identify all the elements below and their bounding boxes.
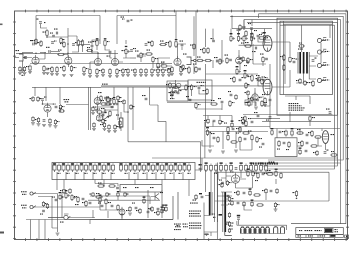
wire tank extra [221,178,232,205]
resistor R83 [195,102,201,109]
resistor R34 string [159,68,165,77]
resistor R85 [229,100,235,107]
cluster tank c [266,170,274,175]
capacitor C3 [127,20,133,22]
resistor R111 bl [117,191,120,197]
cluster under strip a [97,183,105,188]
pot P2 treble [230,33,235,42]
tube V2B [111,56,118,65]
tube V2A [94,56,101,65]
capacitor C12 in box [198,85,204,89]
jack J7 lower [21,205,36,209]
cluster trem osc [166,80,191,93]
cluster under strip c [60,188,71,194]
resistor R9 vert [77,39,83,47]
capacitor C51 [51,41,56,44]
wire psu mid [204,216,217,233]
cluster trem top a [271,128,282,136]
pot P9 reverb [206,127,211,136]
cluster ch2 mix [214,57,224,65]
resistor R26 string [55,66,59,76]
wire tank drops [236,177,277,188]
wire psu top [204,196,210,235]
ground psu [204,234,209,236]
resistor R92 board [250,162,253,172]
wire plate join [72,47,83,52]
wire bl rail2 [90,196,150,204]
wire mid verticals [194,60,240,98]
wire heater bus [237,221,287,234]
wire psu up links [206,170,212,192]
cluster trem top c [296,129,308,136]
resistor R72 [86,47,93,52]
box power amp outer [277,18,337,115]
wire V2A [90,52,98,68]
resistor R117 ml [107,124,111,133]
capacitor C55 [186,96,191,101]
cluster tank row2 b [249,189,261,197]
resistor R63 screen [289,56,295,63]
cluster bl h [162,205,165,213]
box bias circuit [188,80,212,100]
cluster tank row3 [228,200,264,208]
resistor R5 horiz [57,50,65,56]
ground R12 [95,76,99,78]
cluster trem top d [308,130,322,138]
wire rail drops [206,98,240,132]
tube V4A ch2 [236,55,243,64]
wire preamp bottom link [130,62,172,64]
capacitor C8 string [46,68,50,74]
resistor R128 [58,108,65,113]
wire to V2 [65,44,68,57]
ground R22 [170,74,174,76]
pot P6 speed [263,32,268,41]
resistor R97 pa [304,80,309,86]
cluster right mid [256,75,266,86]
resistor R14 top [104,38,110,47]
ground R23 [179,74,183,76]
resistor R56 [261,100,267,107]
capacitor C72 pa [262,77,267,81]
capacitor C10 [211,38,215,42]
capacitor C50 [30,40,34,45]
node bus junction [231,15,233,17]
resistor R124 pa [256,76,261,82]
wire to V3 [165,58,172,66]
capacitor C61 ml [116,101,121,105]
capacitor C4 coupling [46,47,50,53]
tube V8 power ellipse [262,77,273,95]
notes text psu [189,203,202,229]
title text GMB NATIONAL PREP [299,230,322,231]
capacitor C15 [252,47,257,53]
ground R106 [274,208,278,211]
resistor R54 [248,74,254,82]
resistor R82 [245,82,250,89]
resistor R40 [190,43,195,50]
box under strip [120,185,162,193]
cluster ml5 [142,95,147,100]
wire OT vertical links [296,25,304,83]
wire [110,54,112,59]
wire x172 drop [171,93,173,98]
wire V3 plate [178,44,187,58]
title lower text [298,235,336,237]
capacitor C68 ml [109,104,114,108]
cluster pa rail 1 [241,116,246,122]
resistor R24 string [42,65,46,75]
resistor R12 [96,68,102,75]
resistor R30 string [121,68,128,77]
transistor Q1 bl [151,192,163,201]
tube V5A mid [252,92,258,101]
wire bus3 turn [252,14,259,26]
ground J1 [20,70,24,72]
capacitor C65 bl [52,197,57,201]
wire mid couple [130,57,136,59]
wire bl extra [38,197,173,220]
cluster ml3 [101,108,111,117]
resistor R103 ml [91,106,95,115]
wire bus drop x232 [230,16,272,28]
resistor R44 [247,57,253,64]
cluster bl pots [65,190,77,201]
jack J8 lower mid [60,214,70,223]
cluster on rail 2 [248,118,253,123]
wire bl y200 [88,199,160,201]
wire pa bottom rail [243,114,332,116]
cluster under strip b [108,185,119,189]
resistor R118 ml [113,124,119,133]
resistor R62 screen [280,54,285,61]
resistor R31 string [126,68,130,77]
tube arch open 1 [274,227,278,234]
capacitor C30 psu [237,215,240,225]
ground R15 [108,76,112,78]
wire ml links [98,100,119,120]
cluster trem in box [277,140,290,150]
pot P4 bass [241,35,248,44]
capacitor C56 [218,98,223,103]
cluster bl f [143,197,146,205]
wire bus drop x176 [175,11,177,40]
resistor R104 ml [130,104,135,110]
wire rev top rails [206,132,269,150]
resistor R112 bl [124,192,129,197]
resistor R77 string [156,68,160,77]
capacitor C67 psu [219,180,224,184]
resistor R13 top [93,38,99,47]
wire rail y85 [101,86,270,87]
capacitor C73 [41,97,46,101]
capacitor C75 hang [42,120,46,127]
resistor R134 jack [46,203,48,209]
wire gnd bus bottom-left [26,220,48,240]
label PU rail [102,84,108,85]
cluster trem top b [282,128,293,137]
cluster rev e [236,133,246,144]
wire bl v [100,203,118,210]
wire pa rail2 [250,118,280,120]
resistor R19 h [160,62,168,68]
wire V1A out [39,52,45,59]
page box [345,235,349,238]
cluster tank d [275,169,283,180]
cluster ml2 [107,96,113,103]
jack J4 speaker [317,63,329,68]
wire top join [97,47,110,50]
resistor R86 [136,208,141,214]
cluster top right preamp [180,41,184,51]
ground R115 [254,107,258,109]
resistor R41 pair [200,47,209,54]
label trem dashes [269,162,275,164]
cluster ml4 [92,122,107,131]
resistor R61 [244,42,252,47]
cluster ch2 right [260,54,268,67]
resistor board row [53,163,191,174]
wire strip drops [57,172,241,196]
jack J6 lower [21,191,36,195]
ground V1B [62,75,74,77]
box bias inner [167,81,188,101]
capacitor C7 bright [130,48,136,51]
tube V11 in box [171,83,181,88]
wire V4A [239,50,248,61]
pot P8 [244,70,249,79]
cluster bl right b [95,193,103,198]
phase inverter cluster [242,20,266,44]
wire bl verts2 [93,190,162,218]
capacitor C54 [239,77,244,81]
resistor R22 [168,66,174,73]
wire seg2 [68,36,77,46]
resistor R3 [32,38,38,45]
wire c4 [51,51,60,53]
tube V1B [65,55,72,64]
cluster rev b [236,126,250,134]
resistor R16 [116,68,122,75]
resistor R105 tank [219,182,224,188]
resistor R88 [165,205,168,213]
capacitor C20 board [199,164,202,170]
resistor R70 [38,40,43,47]
resistor R116 psu [226,180,231,186]
resistor R50 [180,64,185,71]
resistor R42 [196,57,204,62]
wire rev tank [226,176,246,188]
label B+ box [245,100,252,105]
capacitor C52 [72,42,77,45]
wire trem misc [297,137,326,150]
ground R11 [88,76,92,78]
tube V12 trem ch [44,103,51,112]
wire tubes to OT [272,25,290,87]
notes text psu left2 [183,224,189,228]
volume pot P1 [122,46,130,55]
resistor R90 trem [313,150,318,156]
cluster tank row2 a [234,190,245,196]
resistor R25 string [48,66,54,76]
board inner dividers [57,172,183,180]
cluster pa rail 2 [309,116,315,122]
wire preamp plate bus [36,16,117,45]
box bl [90,192,178,220]
resistor R102 ml [121,99,126,105]
pot P7 intensity [236,66,241,75]
wire bl drop [52,214,62,232]
ground R16 [115,76,119,78]
notes text block [289,103,305,111]
node n1 [46,36,93,53]
resistor R27 string [28,65,32,74]
capacitor C58 trem [324,150,329,154]
wire under strip [95,180,118,187]
resistor R15 [109,68,111,75]
capacitor C74 [53,104,58,108]
wire ml extra [96,105,128,118]
transformer T1 output [298,49,309,74]
resistor R73 [148,40,153,47]
resistor R93 board [254,164,258,174]
wire bus to preamp [117,15,176,17]
resistor R120 ml [117,95,122,101]
wire psu to frame [204,232,217,239]
wire pot [123,40,130,58]
label rail digits [251,162,278,164]
wire trem rails [270,129,340,138]
resistor R109 bl [90,192,95,197]
wire frame to jack [15,57,20,59]
wire bus 5 [268,25,334,169]
title small marks [335,229,339,232]
cluster mid small [228,91,237,100]
resistor R121 ml [105,97,112,102]
resistor R29 string [101,68,105,77]
title lower band [296,235,344,238]
title logo dark box [324,228,333,233]
resistor R80 string [22,66,27,76]
cluster bl e [128,203,137,216]
resistor R8 [70,65,76,72]
notes text psu left [174,224,181,231]
wire bus drop x196 [195,11,197,63]
tube arch open 2 [280,227,284,234]
capacitor C40 on bus [248,23,253,29]
wire pa verticals [253,44,310,126]
scan mark left margin bottom [0,232,4,234]
wire title top [291,223,346,225]
resistor R65 fb [309,80,314,87]
tube V6B midleft [96,113,102,122]
wire preamp grid rail [22,51,46,53]
resistor R122 [60,37,65,44]
resistor R129 hang [31,116,35,125]
resistor R87 [154,210,159,216]
resistor R21 plate [175,39,178,48]
box board strip [52,163,195,180]
cluster rev c [211,133,219,143]
wire mid rail [205,126,270,128]
resistor R84 [210,100,218,105]
resistor R127 [59,104,64,110]
resistor R58 [104,103,112,105]
wire bus down right [340,163,342,224]
wire tank inner [218,194,267,210]
resistor R71 [60,41,65,48]
resistor R101 ml [96,109,103,114]
cluster rev a [224,123,234,134]
cluster trem low [299,148,308,156]
resistor R11 [89,68,91,75]
resistor R52 in box [190,84,196,91]
cluster trem right [298,140,318,147]
resistor R107 tank right [293,190,298,197]
node tank right [296,198,298,200]
capacitor C69 ml [102,112,107,116]
resistor R10 vert [81,39,83,47]
wire bus2 turn [243,20,245,30]
cluster on rail 3 [239,118,245,125]
resistor R78 string [165,68,171,77]
wire box inner [167,90,212,103]
wire y44 link [78,44,90,46]
resistor R28 string [82,66,89,76]
box power amp inner [280,21,332,94]
ground rev 1 [208,150,212,152]
wire pa bl [248,96,256,106]
wire cath bus y63 [30,63,130,65]
cluster psu top [193,193,204,201]
resistor R106 below tank [274,202,279,208]
resistor R95 board [264,164,268,174]
pot P10 bl [59,192,64,200]
resistor R81 [230,76,235,83]
wire B+ bus 3 [247,22,337,166]
resistor R32 string [131,68,137,77]
wire spk drop [321,25,330,63]
cluster pa rail 3 [326,109,331,114]
wire ml to reverb [166,121,205,172]
scan mark left margin top [0,24,3,26]
capacitor C53 [145,42,150,46]
cluster rev g [259,143,264,147]
resistor R75 string [139,68,143,77]
resistor R133 jack [42,201,47,207]
resistor R33 string [144,68,148,77]
capacitor C59 pa [312,58,317,62]
capacitor C60 pa low [256,97,261,101]
wire bl long [48,218,95,225]
wire OT to jacks [309,56,318,79]
jack J5 ext speaker [317,78,329,83]
cluster bl d [119,207,129,220]
cluster rev f [248,131,262,144]
wire preamp v222 [221,40,223,63]
resistor R79 string [18,66,22,75]
tube V1A [32,55,39,64]
cluster under tubes [262,94,271,107]
resistor R45 [258,34,266,39]
box reverb tank [215,172,329,222]
resistor R64 [283,64,285,71]
resistor R126 [37,96,42,102]
node ml [113,104,129,113]
capacitor C16 [293,59,299,63]
jack J9 speaker [317,49,329,54]
resistor R96 pa [296,78,301,84]
